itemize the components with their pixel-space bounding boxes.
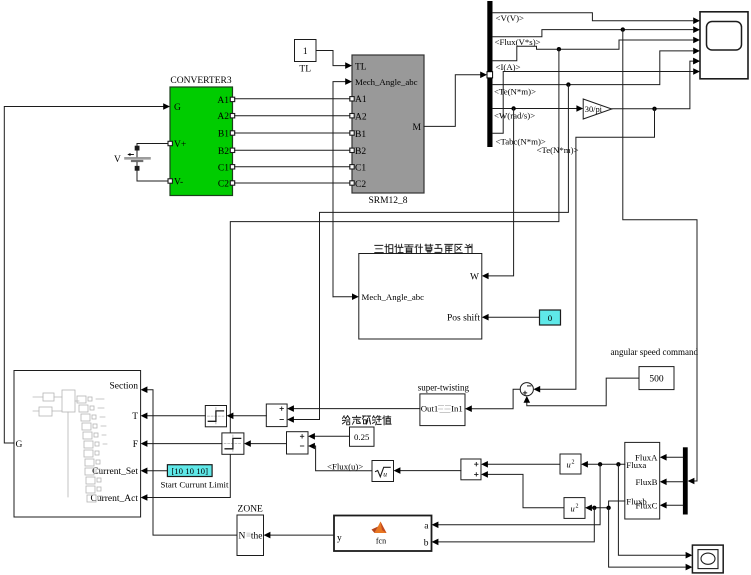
wire sqrt out to sum2 minus <box>315 446 372 471</box>
relay 2 (flux hysteresis) <box>222 433 244 454</box>
wire [10 10 10] to Current_Set <box>147 470 167 472</box>
svg-text:In1: In1 <box>451 404 463 414</box>
wire XY input1 from Fluxa branch <box>618 464 685 555</box>
svg-text:T: T <box>132 412 138 422</box>
svg-text:angular speed command: angular speed command <box>611 347 699 357</box>
svg-text:SRM12_8: SRM12_8 <box>368 196 407 206</box>
wire fcn y to ZONE the <box>270 534 334 536</box>
constant 500 <box>639 367 674 390</box>
converter CONVERTER3 <box>168 76 235 196</box>
scope <box>693 12 748 79</box>
matlab function block fcn <box>334 516 432 552</box>
svg-text:2: 2 <box>576 504 579 510</box>
wire sum1 to relay1 <box>233 415 266 417</box>
svg-text:2: 2 <box>572 460 575 466</box>
wire converter B1 to SRM B1 <box>235 132 350 134</box>
svg-text:A2: A2 <box>355 113 367 123</box>
sum 1 (torque error) <box>266 404 287 427</box>
svg-text:M: M <box>413 123 422 133</box>
constant 0.25 <box>350 427 375 446</box>
label given flux strokes (Chinese) <box>343 416 392 425</box>
svg-text:<Flux(V*s)>: <Flux(V*s)> <box>495 37 541 47</box>
svg-text:F: F <box>133 440 138 450</box>
wire I(A) to scope input3 <box>493 40 694 61</box>
wire super-twisting Out1 to torque sum <box>294 408 420 410</box>
wire demux to FluxB <box>666 481 683 483</box>
wire relay1 to T <box>147 415 205 417</box>
junction I branch <box>557 47 561 51</box>
constant TL <box>295 40 317 75</box>
svg-text:<Te(N*m)>: <Te(N*m)> <box>537 145 579 155</box>
junction W branch <box>511 106 515 110</box>
svg-text:Start Currunt Limit: Start Currunt Limit <box>161 480 229 490</box>
svg-text:u: u <box>567 460 571 470</box>
svg-text:B1: B1 <box>355 130 366 140</box>
gain 30/pi <box>583 99 612 119</box>
wire demux to FluxC <box>666 504 683 506</box>
svg-text:Current_Set: Current_Set <box>92 467 138 477</box>
junction Te branch <box>566 82 570 86</box>
junction rpm branch <box>652 107 656 111</box>
wire gain output to scope input5 <box>612 61 694 109</box>
relay 1 (torque hysteresis) <box>205 406 226 427</box>
wire battery to V- <box>137 162 168 181</box>
svg-text:Section: Section <box>110 382 139 392</box>
svg-text:y: y <box>337 534 342 544</box>
svg-text:Mech_Angle_abc: Mech_Angle_abc <box>362 292 425 302</box>
svg-text:1: 1 <box>303 47 308 57</box>
constant [10 10 10] (cyan) <box>161 465 229 490</box>
wire Tabc(N*m) to scope input6 <box>493 72 694 134</box>
svg-text:<W(rad/s)>: <W(rad/s)> <box>494 111 535 121</box>
wire G feedback from lower block to converter G <box>4 107 164 444</box>
svg-text:G: G <box>174 103 181 113</box>
SRM machine block SRM12_8 <box>350 55 424 206</box>
wire u2B out to sum3 <box>488 474 564 507</box>
wire fcn b from Fluxb branch <box>438 508 594 542</box>
sum circle (speed error) <box>520 383 533 396</box>
wire demux to FluxA <box>666 456 683 458</box>
bus selector bar <box>487 1 492 147</box>
svg-text:<V(V)>: <V(V)> <box>496 13 525 23</box>
svg-text:Mech_Angle_abc: Mech_Angle_abc <box>355 77 418 87</box>
svg-text:A1: A1 <box>355 95 367 105</box>
flux subsystem block <box>625 442 660 519</box>
svg-text:N: N <box>239 532 246 542</box>
wire converter B2 to SRM B2 <box>235 149 350 151</box>
wire 500 to sum circle <box>527 378 639 406</box>
wire TL constant to SRM TL <box>316 51 345 66</box>
wire XY input2 from Fluxb branch <box>609 508 686 567</box>
wire Te(N*m) to scope input4 <box>493 51 694 85</box>
wire I branch down to Current_Act <box>147 49 559 497</box>
wire 0.25 to sum2 plus <box>315 435 350 437</box>
sum 2 (flux error) <box>287 432 309 454</box>
svg-text:ZONE: ZONE <box>238 505 264 515</box>
svg-text:<Te(N*m)>: <Te(N*m)> <box>494 87 536 97</box>
wire converter C2 to SRM C2 <box>235 182 350 184</box>
u2 block A <box>560 454 581 474</box>
svg-text:<Flux(u)>: <Flux(u)> <box>327 461 363 471</box>
svg-text:[10 10 10]: [10 10 10] <box>171 466 208 476</box>
svg-text:V+: V+ <box>174 140 186 150</box>
wire converter A1 to SRM A1 <box>235 98 350 100</box>
svg-text:TL: TL <box>355 63 367 73</box>
svg-text:C2: C2 <box>355 180 366 190</box>
svg-text:the: the <box>251 532 263 542</box>
wire battery to V+ <box>137 144 168 157</box>
svg-text:A2: A2 <box>217 112 229 122</box>
svg-text:0: 0 <box>548 313 553 323</box>
svg-text:FluxB: FluxB <box>635 477 657 487</box>
svg-text:Fluxa: Fluxa <box>626 460 646 470</box>
svg-text:FluxC: FluxC <box>635 501 657 511</box>
wire Fluxb to u2B <box>592 501 625 508</box>
svg-text:u: u <box>383 470 387 479</box>
svg-text:B2: B2 <box>218 147 229 157</box>
wire Flux(V*s) to scope input2 <box>493 30 694 37</box>
svg-text:CONVERTER3: CONVERTER3 <box>170 76 231 86</box>
svg-text:Out1: Out1 <box>421 404 439 414</box>
svg-text:0.25: 0.25 <box>354 432 370 442</box>
sum 3 (flux squares) <box>461 459 481 480</box>
svg-text:B1: B1 <box>218 130 229 140</box>
wire Mech_Angle_abc net <box>333 82 345 297</box>
svg-text:B2: B2 <box>355 147 366 157</box>
demux bar for flux <box>683 447 688 514</box>
wire V(V) to scope input1 <box>493 13 694 21</box>
svg-text:Pos shift: Pos shift <box>447 312 480 323</box>
svg-text:C1: C1 <box>355 164 366 174</box>
wire Te branch down to torque sum <box>294 85 569 420</box>
svg-text:A1: A1 <box>217 96 229 106</box>
inner thumbnail of big block <box>33 390 107 502</box>
svg-text:u: u <box>571 504 575 514</box>
wire sum2 to relay2 <box>251 443 287 445</box>
wire converter C1 to SRM C1 <box>235 166 350 168</box>
svg-text:C2: C2 <box>218 180 229 190</box>
title strokes (Chinese) for position block <box>375 244 472 253</box>
ZONE block <box>237 505 264 556</box>
wire SRM M to bus bar <box>424 75 481 127</box>
svg-text:<I(A)>: <I(A)> <box>496 62 521 72</box>
svg-text:V-: V- <box>174 178 183 188</box>
wire rpm branch down to speed sum <box>540 109 655 389</box>
svg-text:b: b <box>424 539 429 549</box>
svg-text:fcn: fcn <box>376 537 386 546</box>
svg-text:30/pi: 30/pi <box>585 105 603 114</box>
svg-text:G: G <box>16 440 23 450</box>
svg-text:W: W <box>470 273 479 283</box>
wire u2A out to sum3 <box>488 463 560 465</box>
dc voltage source V <box>114 146 150 170</box>
svg-text:V: V <box>114 155 121 165</box>
current controller big block <box>14 371 141 518</box>
wire W branch down to position block W <box>488 109 513 276</box>
XY graph scope <box>686 545 724 573</box>
svg-text:500: 500 <box>649 375 664 385</box>
super-twisting subsystem <box>418 383 470 426</box>
wire sum3 to sqrt <box>400 470 461 472</box>
wire 0 to Pos shift <box>488 316 539 318</box>
svg-text:super-twisting: super-twisting <box>418 383 470 393</box>
svg-text:TL: TL <box>299 65 311 75</box>
wire W(rad/s) to gain <box>493 108 577 110</box>
wire ZONE N to Section <box>147 390 237 535</box>
svg-text:C1: C1 <box>218 164 229 174</box>
subsystem three-phase position/sector block <box>359 254 482 340</box>
constant 0 (cyan) <box>540 310 561 325</box>
wire flux branch down to demux <box>623 30 697 481</box>
wire fcn a from Fluxa branch <box>438 464 600 525</box>
u2 block B <box>564 498 585 519</box>
junction flux branch <box>621 27 625 31</box>
wire Fluxa to u2A <box>588 463 625 465</box>
wire relay2 to F <box>147 443 222 445</box>
sqrt block <box>372 461 394 482</box>
wire converter A2 to SRM A2 <box>235 115 350 117</box>
wire sum circle to super-twisting In1 <box>472 389 521 409</box>
